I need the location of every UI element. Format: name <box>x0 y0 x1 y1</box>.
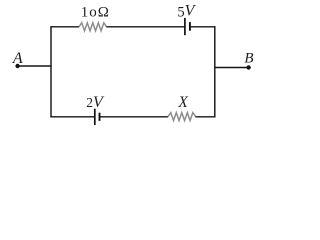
wire from right rail to node B <box>215 67 249 69</box>
bottom wire right segment <box>195 116 215 118</box>
right rail wire <box>214 26 216 117</box>
resistor 10Ω zigzag <box>79 23 107 31</box>
battery 5V long plate <box>184 18 186 35</box>
bottom wire middle segment <box>100 116 169 118</box>
battery 2V long plate <box>94 109 96 125</box>
svg-text:B: B <box>244 50 253 66</box>
wire from node A to left rail <box>18 65 52 67</box>
node B dot <box>246 65 250 69</box>
svg-text:2V: 2V <box>86 94 105 111</box>
bottom wire left segment <box>50 116 94 118</box>
svg-text:X: X <box>177 94 188 111</box>
top wire middle segment <box>106 26 184 28</box>
svg-text:5V: 5V <box>177 2 196 20</box>
battery 2V short plate <box>99 113 101 121</box>
top wire right segment <box>190 26 216 28</box>
left rail wire <box>50 26 52 117</box>
resistor X zigzag <box>168 113 196 121</box>
top wire left segment <box>50 26 79 28</box>
battery 5V short plate <box>189 22 191 31</box>
svg-text:1oΩ: 1oΩ <box>81 4 110 20</box>
node A dot <box>15 64 19 68</box>
